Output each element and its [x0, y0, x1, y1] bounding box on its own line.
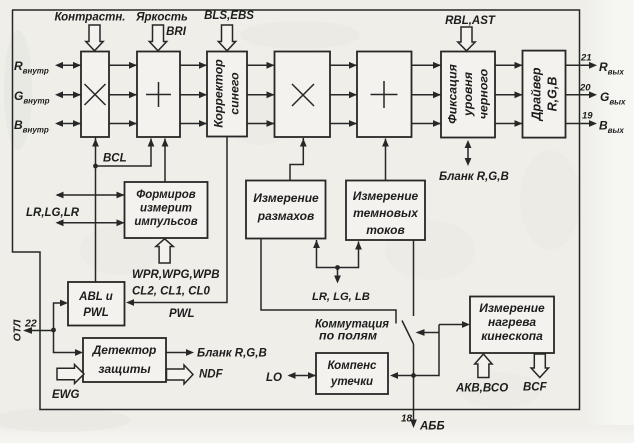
wire U3-U4 row B [247, 123, 275, 125]
svg-text:WPR,WPG,WPB: WPR,WPG,WPB [132, 269, 220, 281]
wire U4-U5 row R [330, 64, 357, 66]
pulse former/measure block U8 [125, 182, 208, 238]
leakage compensation block U13 [316, 353, 388, 394]
ABL and PWL block U11 [68, 282, 125, 326]
node OTL junction [51, 328, 56, 333]
black level clamp U6 [441, 52, 495, 138]
wire U1-U2 row R [109, 64, 137, 66]
wire U2-U3 row R [180, 64, 207, 66]
wire BCL feedback up into U1 [95, 137, 97, 282]
svg-text:токов: токов [366, 223, 405, 237]
wire ABB line to pin 18 [413, 344, 415, 424]
svg-text:Драйвер: Драйвер [530, 67, 544, 121]
svg-text:Контрастн.: Контрастн. [54, 12, 125, 24]
signal arrow NDF out [167, 365, 194, 384]
RGB driver U7 [523, 51, 566, 138]
wire OTL to ABL [54, 303, 65, 330]
svg-text:BCL: BCL [103, 153, 127, 165]
signal arrow EWG in [57, 365, 84, 384]
wire field commutation from U9 to switch [261, 239, 396, 324]
svg-text:синего: синего [228, 72, 242, 115]
signal arrow BCF out of U14 [531, 354, 548, 378]
control arrow (contrast) into U1 [86, 25, 103, 51]
wire U10 top to U5 bottom [385, 139, 387, 181]
svg-text:BCF: BCF [523, 382, 548, 394]
pin 19 output B [566, 123, 595, 125]
multiplier U1 (contrast) [81, 52, 109, 138]
wire U1-U2 row G [109, 94, 137, 96]
svg-text:АКВ,ВСО: АКВ,ВСО [455, 383, 508, 395]
node tee junction [335, 265, 340, 270]
svg-text:импульсов: импульсов [134, 216, 197, 228]
svg-text:Фиксация: Фиксация [446, 63, 460, 123]
svg-text:18: 18 [401, 414, 413, 425]
control arrow (brightness) into U2 [149, 25, 166, 51]
wire blanking output of detector [166, 352, 190, 354]
wire LR line 1 [57, 194, 125, 196]
wire U5-U6 row R [412, 64, 442, 66]
svg-text:по полям: по полям [319, 329, 377, 343]
svg-text:PWL: PWL [169, 308, 195, 320]
svg-text:22: 22 [24, 318, 37, 330]
svg-text:ABL и: ABL и [78, 291, 113, 303]
node BCL junction [93, 164, 98, 169]
wire U5-U6 row G [412, 94, 442, 96]
control arrow (RBL,AST) into clamp block [458, 27, 475, 51]
svg-text:утечки: утечки [330, 376, 373, 388]
wire pulse-former to U2 [164, 139, 166, 183]
wire U2-U3 row B [180, 123, 207, 125]
wire BCL branch to U2 [96, 139, 152, 167]
pin 20 output G [566, 94, 595, 96]
wire U4-U5 row G [330, 94, 357, 96]
svg-text:EWG: EWG [52, 389, 80, 401]
wire LR,LG,LB tee under measuring blocks [317, 240, 359, 268]
wire U1-U2 row B [109, 123, 137, 125]
wire U2-U3 row G [180, 94, 207, 96]
svg-text:темновых: темновых [353, 206, 419, 220]
svg-text:LR,LG,LR: LR,LG,LR [26, 207, 80, 219]
multiplier U4 (drive) [275, 52, 331, 138]
wire PWL from U3 to ABL [128, 137, 227, 303]
wire U4-U5 row B [330, 123, 357, 125]
wire G input [57, 94, 81, 96]
wire U6-U7 row R [495, 64, 523, 66]
pin 21 output R [566, 64, 595, 66]
svg-text:Детектор: Детектор [92, 343, 157, 357]
wire U3-U4 row G [247, 94, 275, 96]
protection detector block U12 [83, 338, 166, 382]
amplitude measuring block U9 [246, 181, 326, 239]
svg-text:ОТЛ: ОТЛ [12, 319, 24, 342]
svg-text:NDF: NDF [199, 369, 224, 381]
wire R input [57, 64, 81, 66]
wire U3-U4 row R [247, 64, 275, 66]
clamp blanking double arrow [467, 142, 469, 163]
svg-text:Измерение: Измерение [253, 191, 319, 205]
svg-text:20: 20 [579, 83, 591, 94]
wire U6-U7 row G [495, 94, 523, 96]
svg-text:Компенс: Компенс [328, 360, 378, 372]
svg-text:PWL: PWL [83, 307, 109, 319]
wire LR,LG,LB stub down [337, 268, 339, 281]
svg-text:нагрева: нагрева [488, 315, 536, 329]
blue corrector U3 [207, 52, 247, 137]
svg-text:Яркость: Яркость [135, 12, 188, 24]
svg-text:CL2, CL1, CL0: CL2, CL1, CL0 [132, 286, 211, 298]
kinescope heating measuring block U14 [470, 297, 554, 354]
wire dark current line down from U10 [413, 240, 415, 316]
svg-text:уровня: уровня [461, 71, 475, 117]
svg-text:Бланк R,G,B: Бланк R,G,B [197, 348, 267, 360]
svg-text:LR, LG, LB: LR, LG, LB [312, 291, 370, 303]
adder U5 (cutoff) [357, 52, 412, 138]
svg-text:размахов: размахов [257, 209, 314, 223]
svg-text:защиты: защиты [98, 362, 151, 376]
control arrow (BLS,EBS) into U3 [218, 25, 235, 51]
wire U5-U6 row B [412, 123, 442, 125]
wire into heating block [439, 324, 466, 326]
svg-text:BLS,EBS: BLS,EBS [204, 10, 254, 22]
dark current measuring block U10 [346, 181, 425, 241]
svg-text:Бланк R,G,B: Бланк R,G,B [439, 171, 509, 183]
switch actuator arrow [419, 332, 439, 334]
wire OTL to protection detector [54, 330, 80, 353]
adder U2 (brightness) [137, 52, 180, 138]
svg-text:LO: LO [266, 372, 282, 384]
control arrow АКВ,ВСО into U14 [475, 354, 492, 378]
node leakage junction [411, 373, 416, 378]
wire kinescope line into leakage block [392, 325, 439, 376]
svg-text:19: 19 [582, 111, 593, 122]
svg-text:Измерение: Измерение [353, 189, 419, 203]
switch blade [402, 321, 414, 345]
control arrow WPR/CL into U8 [156, 239, 173, 263]
wire LR line 2 [57, 222, 125, 224]
svg-text:Измерение: Измерение [479, 301, 545, 315]
wire U6-U7 row B [495, 123, 523, 125]
svg-text:АББ: АББ [419, 421, 445, 433]
svg-text:21: 21 [580, 53, 592, 64]
svg-text:Формиров: Формиров [136, 189, 195, 201]
svg-text:кинескопа: кинескопа [481, 329, 543, 343]
wire B input [57, 123, 81, 125]
svg-text:R,G,B: R,G,B [546, 77, 560, 112]
pin 22 OTL input [12, 318, 54, 342]
wire LO to leakage block [289, 375, 316, 377]
svg-text:RBL,AST: RBL,AST [445, 15, 496, 27]
svg-text:Корректор: Корректор [212, 59, 226, 128]
svg-text:BRI: BRI [166, 26, 187, 38]
svg-text:измерит: измерит [140, 203, 192, 215]
svg-text:черного: черного [477, 68, 491, 119]
wire U4 bottom to U9 top (stepped) [290, 138, 303, 181]
